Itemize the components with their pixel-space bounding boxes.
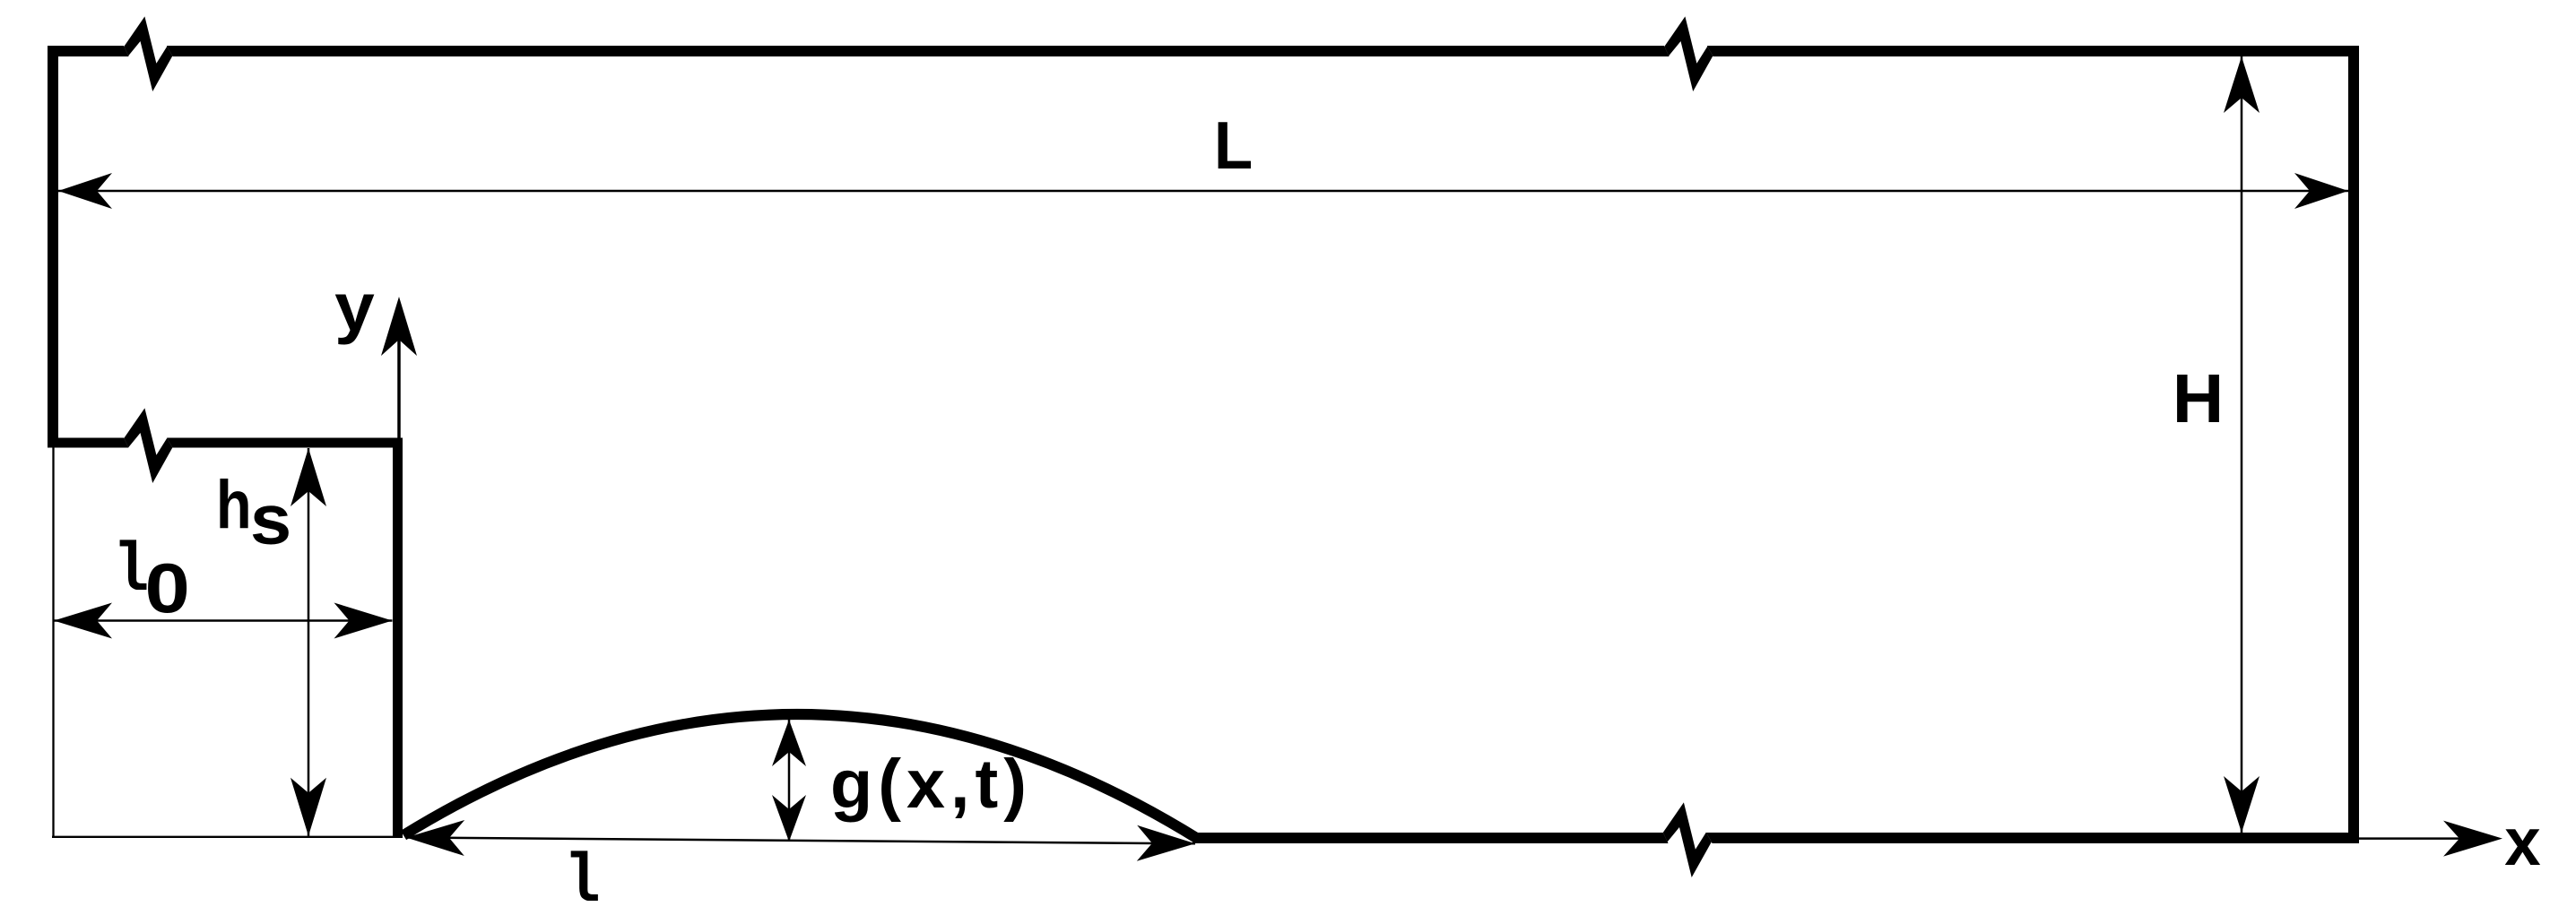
svg-text:H: H	[2173, 359, 2225, 436]
dimension l (bump length), double arrow	[406, 838, 1195, 844]
svg-text:L: L	[1214, 108, 1253, 183]
dimension g(x,t) (bump height), double arrow	[788, 720, 791, 842]
channel outline: bottom wall right of bump	[1193, 833, 2359, 843]
break mark, step shelf	[123, 436, 173, 450]
x axis with arrow	[2359, 837, 2473, 840]
phantom extension line, left (below step)	[52, 448, 54, 838]
svg-text:s: s	[250, 479, 291, 559]
phantom extension line, bottom (under step region)	[52, 836, 403, 838]
svg-text:x: x	[2504, 804, 2540, 879]
svg-text:y: y	[334, 268, 375, 344]
dimension h_s (step height), double arrow	[308, 448, 310, 836]
svg-text:l: l	[113, 532, 149, 611]
step: horizontal shelf at height h_s	[48, 438, 403, 448]
dimension L (channel length), double arrow	[58, 190, 2348, 193]
svg-text:l: l	[564, 843, 600, 921]
svg-text:0: 0	[144, 549, 189, 627]
dimension l_0 (step length), double arrow	[54, 619, 393, 622]
svg-text:g(x,t): g(x,t)	[830, 746, 1032, 823]
svg-text:h: h	[216, 466, 252, 542]
channel outline: top wall	[48, 46, 2359, 56]
y axis with arrow	[397, 303, 401, 443]
dimension H (channel height), double arrow	[2241, 56, 2243, 833]
break mark, top wall right	[1663, 45, 1713, 58]
bump g(x,t) on channel bottom	[403, 714, 1198, 839]
channel outline: right wall (outlet side)	[2348, 46, 2359, 843]
step: vertical face at x=0	[393, 438, 403, 839]
channel outline: left wall (inlet side, above step)	[48, 46, 58, 448]
break mark, bottom wall	[1662, 831, 1713, 844]
break mark, top wall left	[123, 45, 173, 58]
